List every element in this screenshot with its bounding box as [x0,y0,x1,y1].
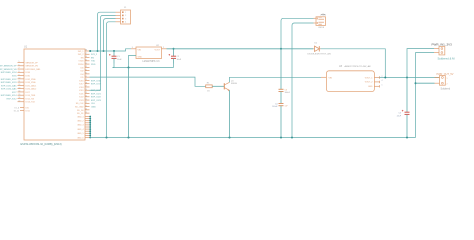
svg-text:24: 24 [85,95,87,97]
svg-text:D1: D1 [315,42,318,44]
connector P1 body [439,47,445,55]
svg-text:1: 1 [125,12,126,14]
svg-text:R1: R1 [207,83,210,85]
svg-text:25: 25 [85,92,87,94]
wire 3V3 rail [167,48,314,50]
wire J1 pin4 to GND rail [107,22,116,138]
junction dot J1-3 [103,50,105,52]
svg-text:J1: J1 [124,7,127,9]
wire R1 to Q1 [212,85,224,87]
junction dot J1-1 [97,50,99,52]
svg-text:9: 9 [19,74,20,76]
svg-text:LM1117MPX-3.3: LM1117MPX-3.3 [143,61,161,63]
svg-text:IO14_TMS: IO14_TMS [26,95,36,97]
svg-text:30: 30 [85,76,87,78]
svg-text:CLK: CLK [91,103,96,105]
wire P2 pin2 [416,82,435,84]
svg-text:2: 2 [447,84,448,86]
svg-text:EN: EN [91,57,94,59]
svg-text:EXP_SENSOR_VP: EXP_SENSOR_VP [0,66,17,68]
capacitor C2 [169,49,177,68]
svg-text:EXP_SENSOR_VN: EXP_SENSOR_VN [0,69,17,71]
svg-text:5: 5 [19,61,20,63]
regulator U3 body [326,71,374,92]
wire EN from IC [90,77,206,86]
svg-text:IO35: IO35 [26,75,31,77]
pins P1 [434,48,439,50]
svg-text:16: 16 [19,97,21,99]
wire J1 pin1 to 5V rail [98,12,116,51]
svg-text:38: 38 [85,50,87,52]
svg-text:3: 3 [125,18,126,20]
wire SW1 bottom to GND [292,23,314,138]
svg-text:23: 23 [85,99,87,101]
svg-text:100nF: 100nF [285,92,291,94]
IC U1 GND pins [77,116,90,139]
svg-text:PWR_OUT_5V: PWR_OUT_5V [437,73,454,76]
junction dots on GND rail [106,137,409,139]
svg-text:IO27: IO27 [12,92,17,94]
wire GND column [89,116,91,139]
junction dot SW tap [280,48,282,50]
svg-text:IO22: IO22 [79,97,84,99]
svg-text:TXD0: TXD0 [78,61,84,63]
svg-text:ESP32-WROOM-32_(16MB)_(M113): ESP32-WROOM-32_(16MB)_(M113) [21,143,62,146]
svg-text:GND: GND [138,56,143,58]
svg-text:100nF: 100nF [272,106,278,108]
wire P1 pin1 [407,49,434,78]
svg-text:KEY-B: KEY-B [319,27,325,29]
capacitor C1 [109,51,117,68]
svg-text:IO25_DAC1: IO25_DAC1 [26,84,38,87]
connector P2 body [440,76,446,86]
svg-text:IO35: IO35 [12,75,17,77]
svg-text:15: 15 [19,94,21,96]
svg-text:10uF: 10uF [177,59,182,61]
svg-text:1uF: 1uF [285,106,289,108]
svg-text:4: 4 [382,80,383,82]
svg-text:12: 12 [19,84,21,86]
svg-text:VIN: VIN [329,77,333,79]
svg-text:GND: GND [368,86,373,88]
pin U2 VIN [131,48,136,50]
svg-text:AMS1117DPS-TO-252_AB: AMS1117DPS-TO-252_AB [344,65,372,68]
svg-text:IO26_DAC2: IO26_DAC2 [26,88,38,91]
regulator U2 body [136,47,162,59]
junction dot C5 tap [406,77,408,79]
svg-text:IO21: IO21 [79,93,84,95]
svg-text:EXPOSED_PAD: EXPOSED_PAD [26,68,41,71]
svg-text:CMD: CMD [91,106,96,108]
svg-text:2: 2 [125,15,126,17]
svg-text:11: 11 [19,81,21,83]
svg-text:VOUT: VOUT [154,50,160,52]
svg-text:IO19: IO19 [79,90,84,92]
svg-text:SD_D1: SD_D1 [77,113,84,115]
svg-text:10uF: 10uF [117,59,122,61]
svg-text:35: 35 [85,60,87,62]
capacitor C3 [279,89,284,103]
svg-text:IO_11: IO_11 [14,110,20,112]
svg-text:DIODE-SCHOTTKY_40V: DIODE-SCHOTTKY_40V [308,54,332,56]
wire GND rail [90,137,415,139]
svg-text:EXPOSED_IO33: EXPOSED_IO33 [1,82,18,84]
svg-text:IO27: IO27 [26,92,31,94]
wire 3V3 to C3 [280,49,282,90]
pin U2 VOUT [162,48,167,50]
svg-text:27: 27 [85,86,87,88]
svg-text:IO5: IO5 [80,77,84,79]
junction dot C1 tap [113,50,115,52]
svg-text:GND_1: GND_1 [77,116,83,118]
svg-text:IO16: IO16 [79,80,84,82]
svg-text:EXPOSED_IO32: EXPOSED_IO32 [1,79,18,81]
svg-text:Soldered: Soldered [441,88,451,91]
svg-text:IO23: IO23 [79,100,84,102]
wire mid GND rail [113,67,174,69]
svg-text:GND_5: GND_5 [77,133,83,135]
svg-text:22: 22 [85,102,87,104]
svg-text:EN: EN [81,57,84,59]
junction dot P2 gnd [415,82,417,84]
svg-text:Soldered & M: Soldered & M [438,57,456,61]
svg-text:3V3_1: 3V3_1 [78,51,85,53]
svg-text:28: 28 [85,82,87,84]
svg-text:IO12_TDI: IO12_TDI [26,98,35,100]
svg-text:VIN: VIN [138,50,142,52]
IC U1 ESP32 module body [24,49,85,140]
svg-text:3V3_2: 3V3_2 [91,54,98,56]
svg-text:6: 6 [19,64,20,66]
svg-text:EXP_IO22: EXP_IO22 [91,97,102,99]
svg-text:19: 19 [85,112,87,114]
svg-text:34: 34 [85,63,87,65]
svg-text:IO18: IO18 [79,87,84,89]
wire U3 out [380,77,440,79]
svg-text:22uF: 22uF [397,115,402,117]
svg-text:SENSOR_VN: SENSOR_VN [26,66,39,68]
svg-text:EXP_IO16: EXP_IO16 [91,80,102,82]
svg-text:37: 37 [85,53,87,55]
svg-text:4: 4 [125,22,126,24]
IC U1 left NC pins [14,107,31,112]
svg-text:32: 32 [85,69,87,71]
svg-text:IO6: IO6 [26,107,30,109]
svg-text:IO32_XTAL: IO32_XTAL [26,78,37,81]
svg-text:IO2: IO2 [80,71,84,73]
svg-text:RXD: RXD [91,64,96,66]
svg-text:10: 10 [19,78,21,80]
svg-text:26: 26 [85,89,87,91]
svg-text:13: 13 [19,87,21,89]
svg-text:IO13_TCK: IO13_TCK [26,102,36,104]
wire U2 gnd to GND rail [128,68,130,138]
pins U3 right [374,76,379,87]
svg-text:1: 1 [382,85,383,87]
IC U1 right pins [75,50,102,115]
svg-text:SD_CMD: SD_CMD [75,106,84,108]
svg-text:21: 21 [85,105,87,107]
svg-text:IO0: IO0 [80,67,84,69]
IC U1 left pins [0,61,41,103]
connector J1 body [121,10,131,24]
wire Q1 collector up [230,77,322,82]
svg-text:36: 36 [85,56,87,58]
svg-text:RXD0: RXD0 [78,64,84,66]
svg-text:SW1: SW1 [322,15,326,17]
svg-text:IO17: IO17 [79,84,84,86]
svg-text:EXP_IO26_DAC: EXP_IO26_DAC [1,88,17,91]
wire U2 GND [129,56,137,68]
wire J1 pin2 to IC pin [101,15,116,90]
wire 3V3 to C5 [406,78,408,113]
svg-text:17: 17 [19,100,21,102]
capacitor C4 [279,104,284,138]
wire J1 pin3 to 5V rail [104,19,116,51]
svg-text:31: 31 [85,73,87,75]
svg-text:SS8050: SS8050 [231,83,237,85]
switch SW1 [314,14,326,25]
capacitor C5 [402,110,410,138]
svg-text:IO4: IO4 [80,74,84,76]
svg-text:GND_4: GND_4 [77,129,83,131]
svg-text:EXP_IO23: EXP_IO23 [91,100,102,102]
svg-text:SENSOR_VP: SENSOR_VP [26,62,39,64]
svg-text:EXPOSED_IO14: EXPOSED_IO14 [1,95,18,97]
wire P1 pin2 [416,53,435,138]
connector J1 pins [116,12,121,22]
svg-text:SD_CLK: SD_CLK [76,103,84,105]
wire 5V rail [90,49,132,51]
svg-text:TXD: TXD [91,61,96,63]
svg-text:GND_6: GND_6 [77,137,83,139]
diode D1 [313,46,320,51]
svg-text:EXP_IO21: EXP_IO21 [91,93,102,95]
svg-text:7: 7 [19,68,20,70]
svg-text:IO11: IO11 [26,110,31,112]
svg-text:VOUT_2: VOUT_2 [365,82,374,84]
svg-text:EXP_IO17: EXP_IO17 [91,84,102,86]
junction dot C2 tap [173,48,175,50]
pins P2 [435,77,440,79]
svg-text:1: 1 [447,78,448,80]
svg-text:U3: U3 [339,65,343,68]
resistor R1 [206,85,213,88]
svg-text:EXP_IO12: EXP_IO12 [7,98,18,100]
wire Q1 emitter down [229,90,231,137]
svg-text:PWR_IN1_3V3: PWR_IN1_3V3 [432,42,453,46]
svg-text:EXP_IO25_DAC: EXP_IO25_DAC [1,84,17,87]
svg-text:14: 14 [19,91,21,93]
svg-text:1K: 1K [207,90,210,92]
wire diode to corner [321,49,386,78]
svg-text:VOUT_1: VOUT_1 [365,77,374,79]
junction dot VCC pin [89,50,91,52]
svg-text:IO34: IO34 [26,72,31,74]
junction dot diode join [384,77,386,79]
pin U3 VIN [321,76,326,78]
svg-text:29: 29 [85,79,87,81]
transistor Q1 [224,82,229,91]
wire SW1 top to 3V3 [281,18,314,49]
junction dot U2 gnd [128,67,130,69]
svg-text:IO_6: IO_6 [15,107,20,109]
svg-text:C5: C5 [398,112,401,114]
svg-text:33: 33 [85,66,87,68]
svg-text:8: 8 [19,71,20,73]
svg-text:GND_2: GND_2 [77,121,83,123]
svg-text:SD_D0: SD_D0 [77,110,84,112]
svg-text:IO33_XTAL: IO33_XTAL [26,81,37,84]
svg-text:U1: U1 [24,46,28,49]
svg-text:GND_3: GND_3 [77,125,83,127]
svg-text:3V3_2: 3V3_2 [78,54,85,56]
svg-text:EXPOSED_IO34: EXPOSED_IO34 [1,72,18,74]
svg-text:20: 20 [85,109,87,111]
